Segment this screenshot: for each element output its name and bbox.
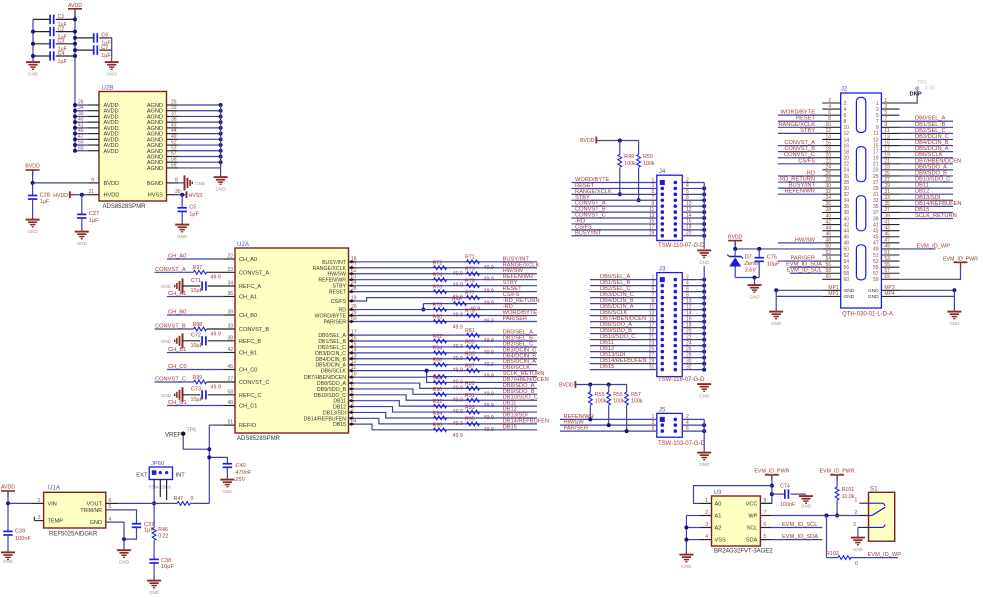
pin number 23 (outer) bbox=[884, 165, 890, 171]
junction MP right bbox=[952, 288, 956, 292]
pin number 39 (outer) bbox=[884, 213, 890, 219]
wire BUSY/INT row bbox=[349, 261, 538, 263]
pin J2 41 lead bbox=[881, 224, 899, 226]
pin number 42 (outer) bbox=[825, 219, 831, 225]
wire U3 gnd bus bbox=[685, 516, 687, 555]
power port HVSS bbox=[187, 191, 204, 199]
resistor R89 bbox=[465, 381, 494, 397]
svg-text:TSW-116-07-G-D: TSW-116-07-G-D bbox=[658, 377, 705, 383]
svg-text:60: 60 bbox=[825, 274, 831, 280]
svg-text:EVM_ID_WP: EVM_ID_WP bbox=[868, 552, 902, 558]
svg-text:R78: R78 bbox=[433, 302, 443, 308]
svg-text:31: 31 bbox=[649, 364, 655, 370]
wire DB13/SDI staircase bbox=[349, 412, 538, 418]
junction pullup/REFEN/WR bbox=[588, 417, 592, 421]
wire D7/C75 bottom rail bbox=[735, 277, 759, 279]
pin name AGND bbox=[147, 109, 163, 115]
wire C4 left lead bbox=[33, 55, 50, 57]
junction AVDD rail bbox=[73, 132, 77, 136]
svg-text:R46: R46 bbox=[158, 527, 168, 533]
pin J2 16 lead bbox=[822, 145, 840, 147]
junction J4 gnd bus bbox=[702, 198, 706, 202]
pin J2 36 lead bbox=[822, 205, 840, 207]
junction AGND bus bbox=[219, 120, 223, 124]
pin number 57 bbox=[171, 151, 177, 157]
svg-text:PAR/SER: PAR/SER bbox=[324, 320, 347, 326]
pin J2 27 lead bbox=[881, 181, 899, 183]
pin name AGND bbox=[147, 160, 163, 166]
junction gnd bus VSS bbox=[684, 538, 688, 542]
pin contact bbox=[674, 423, 678, 427]
pin number 6 bbox=[686, 426, 689, 432]
pin number 4 bbox=[686, 420, 689, 426]
pin J2 40 lead bbox=[822, 218, 840, 220]
pin number 34 bbox=[78, 105, 84, 111]
pin name bbox=[332, 284, 346, 290]
pin number 39 bbox=[78, 111, 84, 117]
junction C75 bbox=[757, 247, 761, 251]
pin number 22 bbox=[686, 334, 692, 340]
pin name A2 bbox=[715, 526, 722, 532]
ground (C40) bbox=[220, 480, 234, 494]
pin number 6 (outer) bbox=[828, 110, 831, 116]
pin number 31 bbox=[649, 364, 655, 370]
pin number 27 bbox=[351, 262, 357, 268]
pin J2 55 lead bbox=[881, 266, 899, 268]
svg-text:R57: R57 bbox=[631, 392, 641, 398]
resistor R86 bbox=[433, 358, 463, 374]
wire R101 to WP bbox=[836, 500, 838, 515]
wire J4 pin 20 to gnd bus bbox=[682, 235, 704, 237]
pin contact bbox=[661, 308, 665, 312]
wire J3 pin 26 to gnd bus bbox=[682, 351, 704, 353]
net label CH_A0 bbox=[168, 254, 186, 260]
pin number bbox=[227, 364, 233, 370]
svg-text:GND: GND bbox=[149, 590, 160, 595]
svg-text:GND: GND bbox=[699, 462, 710, 467]
wire DB14/REFBUFEN to J3 bbox=[590, 363, 657, 365]
wire to R50 bbox=[638, 141, 640, 155]
wire R46 to C38 bbox=[153, 541, 155, 560]
svg-text:GND: GND bbox=[28, 72, 39, 77]
svg-text:GND: GND bbox=[195, 181, 206, 186]
pin contact bbox=[661, 320, 665, 324]
junction R49/RANGE/XCLK bbox=[618, 192, 622, 196]
wire DB3/DCIN_C row bbox=[349, 352, 538, 354]
pin MP3 lead bbox=[881, 289, 899, 291]
pin number 20 bbox=[686, 231, 692, 237]
svg-text:TEMP: TEMP bbox=[48, 519, 64, 525]
pin lead bbox=[207, 328, 235, 330]
pin JP60 pin3 lead bbox=[166, 480, 168, 501]
junction J3 gnd bus bbox=[702, 296, 706, 300]
pin number 33 (outer) bbox=[884, 195, 890, 201]
pin 1 marker (square) bbox=[660, 180, 665, 185]
pin number 55 (outer) bbox=[884, 262, 890, 268]
pin number 2 bbox=[351, 407, 354, 413]
net label ~RD (J2 pin 26) bbox=[805, 170, 815, 176]
resistor R91 bbox=[465, 393, 494, 409]
wire REFIO vertical to VOUT node bbox=[208, 425, 210, 503]
wire to C27 bbox=[81, 195, 83, 215]
pin name bbox=[318, 345, 346, 351]
wire DB13/SDI to J3 bbox=[590, 357, 657, 359]
pin I/O marker bbox=[349, 266, 355, 269]
pin name bbox=[239, 257, 257, 263]
pin lead bbox=[207, 381, 235, 383]
pin number 11 bbox=[649, 304, 654, 310]
pin number 55 (inner) bbox=[873, 265, 879, 271]
junction DB6/SCLK tee bbox=[425, 369, 429, 373]
pin number 29 (inner) bbox=[873, 186, 879, 192]
pin number 21 bbox=[649, 334, 655, 340]
pin U2B AVDD lead bbox=[88, 121, 99, 123]
wire MP1 to gnd bbox=[776, 289, 822, 291]
resistor R73 bbox=[465, 267, 494, 283]
net label DB4/DCIN_B (J3) bbox=[600, 298, 634, 304]
pin number 60 (outer) bbox=[825, 274, 831, 280]
pin J2 33 lead bbox=[881, 199, 899, 201]
capacitor C71 bbox=[191, 278, 206, 294]
pin number 8 bbox=[764, 498, 767, 504]
pin name bbox=[239, 351, 257, 357]
pin number 41 bbox=[78, 122, 84, 128]
pin number bbox=[227, 324, 233, 330]
junction HVDD / C27 bbox=[80, 193, 84, 197]
pin J2 30 lead bbox=[822, 187, 840, 189]
pin I/O marker bbox=[349, 314, 355, 317]
wire HW/SW row bbox=[349, 273, 538, 275]
svg-text:REFC_C: REFC_C bbox=[239, 393, 261, 399]
wire EVM_ID_SCL to J2 pin 58 bbox=[790, 272, 823, 274]
net label CH_B0 bbox=[168, 310, 186, 316]
pin name bbox=[239, 313, 257, 319]
pin contact bbox=[674, 290, 678, 294]
pin number bbox=[227, 310, 233, 316]
capacitor C40 voltage text bbox=[234, 477, 246, 483]
diode D7 (Zener 3.6V) bbox=[727, 249, 760, 274]
pin contact bbox=[674, 344, 678, 348]
junction HVSS / C5 bbox=[180, 193, 184, 197]
test point TP6 (VREF) bbox=[165, 428, 196, 439]
pin lead bbox=[208, 394, 235, 396]
junction AVDD rail bbox=[73, 149, 77, 153]
wire CH_B1 bbox=[167, 352, 224, 354]
wire DB6/SCLK from J2 pin 19 bbox=[900, 157, 954, 159]
pin contact bbox=[674, 228, 678, 232]
svg-text:38: 38 bbox=[227, 335, 233, 341]
net label DB5/DCIN_A bbox=[503, 359, 537, 365]
net label PAR/SER (J5) bbox=[564, 426, 589, 432]
net label DB14/REFBUFEN bbox=[503, 418, 549, 424]
wire BVDD rail (J5) bbox=[575, 384, 626, 386]
resistor R47 bbox=[174, 496, 194, 505]
wire A0 tie-high loop bbox=[694, 486, 772, 504]
wire R50 to STBY bbox=[638, 168, 640, 201]
pin number 5 bbox=[109, 504, 112, 510]
svg-text:EXT: EXT bbox=[136, 472, 148, 478]
net label CH_C0 bbox=[168, 364, 187, 370]
junction J3 gnd bus bbox=[702, 278, 706, 282]
pin I/O marker bbox=[349, 399, 355, 402]
pin number 29 bbox=[649, 358, 655, 364]
pin J2 58 lead bbox=[822, 272, 840, 274]
pin U3 VCC lead bbox=[760, 502, 771, 504]
svg-text:GND: GND bbox=[699, 260, 710, 265]
wire D7 anode down bbox=[734, 267, 736, 278]
net label STBY (J4) bbox=[575, 195, 590, 201]
IC U1A REF5025AIDGKR bbox=[44, 485, 106, 538]
junction J3 gnd bus bbox=[702, 344, 706, 348]
junction left rail bbox=[31, 30, 35, 34]
svg-text:GND: GND bbox=[853, 547, 864, 552]
pin number 9 bbox=[652, 201, 655, 207]
net label DB3/DCIN_C (J3) bbox=[600, 292, 634, 298]
resistor R55 bbox=[588, 392, 606, 405]
pin contact bbox=[661, 187, 665, 191]
net label DB5/DCIN_A (J3) bbox=[600, 304, 634, 310]
junction R55 top bbox=[588, 383, 592, 387]
junction WP/R102 branch bbox=[825, 514, 829, 518]
capacitor C40 bbox=[223, 463, 252, 476]
junction AGND bus bbox=[219, 154, 223, 158]
wire SCLK_RETURN row bbox=[427, 376, 537, 378]
wire VSS to gnd bus bbox=[686, 539, 699, 541]
svg-text:GND: GND bbox=[749, 295, 760, 300]
net label DB4/DCIN_B bbox=[503, 353, 537, 359]
pin number 17 (inner) bbox=[873, 149, 879, 155]
pin number 6 bbox=[686, 189, 689, 195]
wire CS/FS to J2 pin 22 bbox=[778, 163, 822, 165]
junction left rail bbox=[31, 42, 35, 46]
pin number bbox=[227, 347, 233, 353]
svg-text:2: 2 bbox=[855, 510, 858, 516]
svg-text:R46: R46 bbox=[452, 296, 462, 302]
pin number 20 (inner) bbox=[844, 156, 850, 162]
pin number 56 (inner) bbox=[844, 265, 850, 271]
power port BVDD (left of U2B) bbox=[25, 164, 40, 176]
ground (REFC_B, rotated) bbox=[175, 333, 183, 348]
wire CONVST_B to J2 pin 18 bbox=[778, 151, 822, 153]
junction D7 bbox=[733, 247, 737, 251]
resistor R72 bbox=[433, 261, 463, 277]
svg-text:1: 1 bbox=[855, 498, 858, 504]
wire DB2/SEL_C from J2 pin 11 bbox=[900, 132, 954, 134]
pin 1 marker (square) bbox=[660, 417, 665, 422]
svg-text:GND: GND bbox=[107, 72, 118, 77]
wire DB12 staircase bbox=[349, 407, 538, 413]
svg-text:0.22: 0.22 bbox=[158, 534, 168, 540]
wire EVM_ID_PWR to J2 pin 59 bbox=[900, 268, 961, 280]
wire J4 pin 16 to gnd bus bbox=[682, 223, 704, 225]
svg-text:51: 51 bbox=[227, 420, 233, 426]
svg-text:GND: GND bbox=[801, 504, 812, 509]
wire to R102 bbox=[827, 557, 839, 559]
svg-text:R98: R98 bbox=[193, 322, 203, 328]
pin I/O marker bbox=[349, 339, 355, 342]
net label RANGE/XCLK (J4) bbox=[575, 189, 612, 195]
pin number bbox=[227, 291, 233, 297]
pin 1 marker (square) bbox=[660, 277, 665, 282]
pin J2 19 lead bbox=[881, 157, 899, 159]
svg-text:R95: R95 bbox=[465, 417, 475, 423]
pin number 44 (outer) bbox=[825, 225, 831, 231]
svg-text:60: 60 bbox=[78, 145, 84, 151]
pin number 17 bbox=[649, 225, 655, 231]
pin name VIN bbox=[48, 501, 57, 507]
pin number 30 bbox=[175, 189, 181, 195]
net label CONVST_B (J2 pin 18) bbox=[784, 146, 815, 152]
wire MP4 to gnd bbox=[900, 295, 955, 297]
pin name bbox=[329, 290, 347, 296]
wire HVSS bbox=[178, 194, 187, 196]
pin number 50 (outer) bbox=[825, 244, 831, 250]
wire EVM_ID_PWR to VCC bbox=[760, 475, 772, 504]
junction J4 gnd bus bbox=[702, 216, 706, 220]
svg-text:1µF: 1µF bbox=[189, 211, 199, 217]
capacitor C75 bbox=[755, 255, 781, 268]
svg-text:49.9: 49.9 bbox=[211, 331, 221, 337]
svg-text:GND: GND bbox=[161, 339, 172, 344]
wire to R56 bbox=[608, 385, 610, 393]
wire J3 ground bus bbox=[703, 266, 705, 370]
wire WORD/BYTE row bbox=[349, 315, 538, 317]
wire J2 pin1 to TP1 bbox=[900, 90, 918, 103]
svg-text:CH_A1: CH_A1 bbox=[239, 295, 257, 301]
svg-text:R73: R73 bbox=[465, 267, 475, 273]
pin number 53 bbox=[171, 145, 177, 151]
pin I/O marker bbox=[349, 387, 355, 390]
svg-text:U2B: U2B bbox=[102, 85, 114, 92]
wire to R49 bbox=[619, 141, 621, 155]
pin number 33 (inner) bbox=[873, 198, 879, 204]
pin number 3 (inner) bbox=[876, 107, 879, 113]
wire DB14/REFBUFEN from J2 pin 35 bbox=[900, 205, 954, 207]
pin number 7 (inner) bbox=[876, 119, 879, 125]
wire to R55 bbox=[589, 385, 591, 393]
pin lead bbox=[224, 405, 236, 407]
junction J3 gnd bus bbox=[702, 320, 706, 324]
pin number 23 bbox=[649, 340, 655, 346]
net label CONVST_C (J2 pin 20) bbox=[784, 152, 815, 158]
wire DB11 staircase bbox=[349, 401, 538, 406]
pin name AGND bbox=[147, 114, 163, 120]
svg-text:HVSS: HVSS bbox=[189, 193, 204, 199]
pin U3 A1 lead bbox=[700, 515, 712, 517]
svg-text:HVSS: HVSS bbox=[148, 193, 164, 199]
pin number 12 bbox=[351, 359, 357, 365]
wire CONVST_C to J4 bbox=[571, 217, 657, 219]
pin number 31 (inner) bbox=[873, 192, 879, 198]
pin number 14 bbox=[686, 213, 692, 219]
capacitor C74 bbox=[780, 483, 796, 508]
pin number 6 bbox=[351, 383, 354, 389]
wire REFEN/WR to J5 bbox=[560, 418, 657, 420]
svg-text:1µF: 1µF bbox=[89, 218, 99, 224]
pin J2 2 lead bbox=[822, 102, 840, 104]
svg-text:EVM_ID_PWR: EVM_ID_PWR bbox=[943, 257, 978, 263]
svg-text:BR24G32FVT-3AGE2: BR24G32FVT-3AGE2 bbox=[714, 549, 773, 555]
svg-text:CH_C1: CH_C1 bbox=[239, 404, 257, 410]
wire R55 down bbox=[589, 405, 591, 419]
wire J4 pin 12 to gnd bus bbox=[682, 211, 704, 213]
svg-text:DB15: DB15 bbox=[333, 422, 346, 428]
pin number 8 bbox=[686, 292, 689, 298]
IC U2A ADS8528SPMR (ADC section) bbox=[235, 241, 349, 442]
net label SCLK_RETURN bbox=[503, 371, 545, 377]
svg-text:100k: 100k bbox=[643, 161, 655, 167]
net label EVM_ID_WP (J2 pin 49) bbox=[917, 243, 951, 249]
resistor R78 bbox=[433, 302, 463, 318]
svg-text:BVDD: BVDD bbox=[728, 234, 743, 240]
pin number 19 bbox=[649, 328, 655, 334]
pin S1 pin3 lead bbox=[858, 526, 869, 528]
pin number 5 bbox=[652, 189, 655, 195]
svg-text:R79: R79 bbox=[465, 308, 475, 314]
svg-text:48: 48 bbox=[227, 400, 233, 406]
svg-text:DNP: DNP bbox=[910, 92, 922, 98]
pin name bbox=[239, 339, 261, 345]
pin name AGND bbox=[147, 103, 163, 109]
pin name bbox=[239, 284, 261, 290]
wire CONVST_B bbox=[155, 328, 194, 330]
net label DB1/SEL_B (J2 pin 9) bbox=[915, 122, 946, 128]
net label BUSY/INT (J4) bbox=[575, 230, 602, 236]
pin I/O marker bbox=[349, 290, 355, 293]
pin JP60 pin2 lead bbox=[159, 480, 161, 498]
svg-text:DB6/SCLK: DB6/SCLK bbox=[321, 369, 347, 375]
junction AVDD rail bbox=[73, 42, 77, 46]
pin name AGND bbox=[147, 126, 163, 132]
wire HW/SW to J2 pin 48 bbox=[778, 242, 822, 244]
wire C4 right lead bbox=[56, 55, 75, 57]
pin J2 53 lead bbox=[881, 260, 899, 262]
svg-text:PAR/SER: PAR/SER bbox=[503, 316, 528, 322]
svg-text:EVM_ID_PWR: EVM_ID_PWR bbox=[754, 469, 789, 475]
net label DB11 (J2 pin 29) bbox=[915, 183, 929, 189]
net label DB8/SDO_A (J3) bbox=[600, 322, 632, 328]
pin number 4 (inner) bbox=[844, 107, 847, 113]
pin number 26 bbox=[78, 100, 84, 106]
pin J2 17 lead bbox=[881, 151, 899, 153]
junction A0 loop bbox=[770, 484, 774, 488]
wire right cap rail bbox=[111, 38, 113, 62]
resistor R80 bbox=[433, 314, 463, 330]
pin number 7 bbox=[764, 510, 767, 516]
switch S1 bbox=[869, 485, 895, 541]
wire J3 pin 10 to gnd bus bbox=[682, 303, 704, 305]
resistor R46 bbox=[452, 296, 480, 312]
pin number 15 bbox=[649, 316, 655, 322]
wire AVDD to pin bbox=[75, 133, 88, 135]
pin number 14 bbox=[351, 347, 357, 353]
wire C2 left lead bbox=[33, 31, 50, 33]
pin J2 11 lead bbox=[881, 132, 899, 134]
pin J2 49 lead bbox=[881, 248, 899, 250]
svg-text:R102: R102 bbox=[826, 551, 839, 557]
pin number 9 (inner) bbox=[876, 125, 879, 131]
pin number 19 bbox=[649, 231, 655, 237]
pin U2B AGND lead bbox=[167, 161, 179, 163]
pin number 20 bbox=[351, 304, 357, 310]
pin number 18 bbox=[351, 256, 357, 262]
net label DB14/REFBUFEN (J2 pin 35) bbox=[915, 201, 961, 207]
wire left cap rail bbox=[32, 19, 34, 61]
wire AVDD vertical rail bbox=[74, 14, 76, 151]
pin U2B AVDD lead bbox=[88, 150, 99, 152]
pin U3 A0 lead bbox=[700, 502, 712, 504]
pin U2B AGND lead bbox=[167, 104, 179, 106]
